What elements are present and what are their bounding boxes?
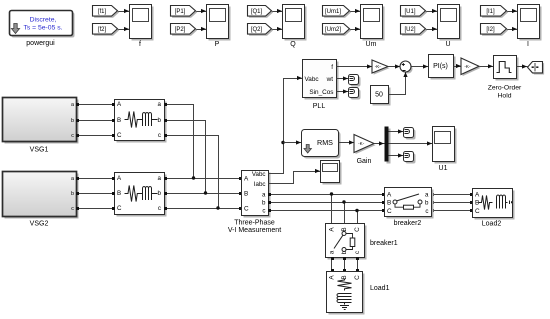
svg-text:b: b [262,199,266,206]
svg-text:C: C [244,205,249,212]
svg-text:A: A [329,227,336,232]
svg-text:VSG1: VSG1 [30,147,49,154]
svg-text:C: C [354,227,361,232]
svg-text:V-I Measurement: V-I Measurement [228,227,281,234]
svg-text:U: U [445,41,450,48]
svg-text:C: C [117,132,122,139]
svg-text:[Um1]: [Um1] [325,9,341,15]
svg-text:B: B [117,190,121,197]
svg-text:Load1: Load1 [370,285,390,292]
svg-text:f: f [331,64,333,71]
svg-text:Gain: Gain [357,158,372,165]
svg-text:b: b [158,117,162,124]
svg-text:b: b [71,191,74,197]
svg-text:Discrete,: Discrete, [30,17,57,24]
svg-text:a: a [329,250,336,254]
svg-text:a: a [71,102,74,108]
svg-text:C: C [354,275,361,280]
svg-text:c: c [71,206,74,212]
svg-text:Iabc: Iabc [254,181,266,188]
svg-text:Vabc: Vabc [305,76,320,83]
svg-text:A: A [387,191,392,198]
svg-text:A: A [329,275,336,280]
svg-text:Vabc: Vabc [252,171,266,178]
svg-text:Hold: Hold [498,93,512,100]
svg-text:a: a [262,191,266,198]
svg-text:Sin_Cos: Sin_Cos [309,89,333,96]
svg-text:b: b [71,118,74,124]
svg-text:powergui: powergui [26,40,55,47]
svg-text:Q: Q [290,41,296,48]
svg-text:VSG2: VSG2 [30,221,49,228]
svg-text:I: I [527,41,529,48]
svg-text:-K-: -K- [358,141,365,146]
svg-text:[U1]: [U1] [404,9,415,15]
svg-text:c: c [354,251,361,254]
svg-text:U1: U1 [439,165,448,172]
svg-text:a: a [158,175,162,182]
svg-text:Zero-Order: Zero-Order [488,85,522,92]
svg-text:Load2: Load2 [482,220,502,227]
svg-text:b: b [158,190,162,197]
svg-text:[I1]: [I1] [486,9,495,15]
svg-text:B: B [341,227,348,231]
svg-text:c: c [158,205,161,212]
svg-text:A: A [475,191,480,198]
svg-text:PLL: PLL [313,103,326,110]
svg-text:RMS: RMS [317,138,333,147]
svg-text:[U2]: [U2] [404,27,415,33]
svg-text:wt: wt [326,76,334,83]
svg-text:a: a [158,101,162,108]
svg-text:[I2]: [I2] [486,27,495,33]
svg-text:b: b [425,199,429,206]
svg-text:B: B [387,199,391,206]
svg-text:breaker2: breaker2 [394,220,422,227]
svg-text:[Q2]: [Q2] [251,27,263,33]
svg-text:C: C [387,208,392,215]
svg-text:[Q1]: [Q1] [251,9,263,15]
svg-text:a: a [425,191,429,198]
svg-text:50: 50 [375,92,383,99]
svg-text:Three-Phase: Three-Phase [234,220,275,227]
svg-text:A: A [244,175,249,182]
svg-text:[P1]: [P1] [175,9,186,15]
svg-text:a: a [71,176,74,182]
svg-text:-K-: -K- [464,64,471,69]
svg-text:B: B [244,190,248,197]
svg-text:[P2]: [P2] [175,27,186,33]
svg-text:f: f [139,41,141,48]
svg-text:-K-: -K- [375,64,382,69]
svg-text:P: P [215,41,220,48]
svg-text:c: c [158,132,161,139]
svg-text:breaker1: breaker1 [370,240,398,247]
svg-text:Ts = 5e-05 s.: Ts = 5e-05 s. [23,25,62,32]
svg-text:c: c [71,133,74,139]
svg-text:[f1]: [f1] [98,9,107,15]
svg-text:[f2]: [f2] [98,27,107,33]
svg-text:c: c [262,208,265,215]
svg-text:B: B [341,275,348,279]
svg-text:C: C [117,205,122,212]
svg-text:C: C [475,208,480,215]
svg-text:c: c [425,208,428,215]
svg-text:B: B [117,117,121,124]
svg-text:Um: Um [366,41,377,48]
svg-text:[Um2]: [Um2] [325,27,341,33]
svg-text:PI(s): PI(s) [433,63,448,70]
